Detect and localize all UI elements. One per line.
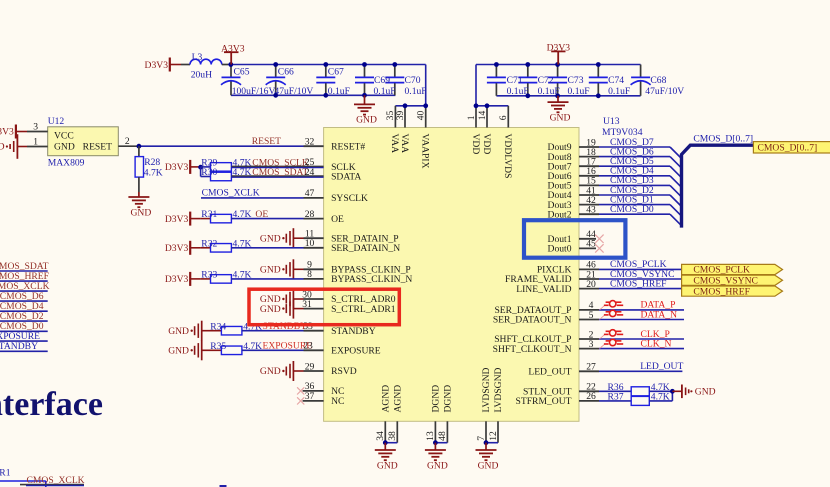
svg-text:EXPOSURE: EXPOSURE bbox=[331, 346, 381, 357]
svg-text:VAAPIX: VAAPIX bbox=[420, 134, 431, 169]
svg-text:LINE_VALID: LINE_VALID bbox=[516, 284, 571, 295]
svg-text:A3V3: A3V3 bbox=[221, 43, 245, 54]
svg-text:LVDSGND: LVDSGND bbox=[481, 367, 492, 412]
svg-text:C74: C74 bbox=[608, 75, 624, 86]
svg-text:3: 3 bbox=[33, 122, 38, 133]
svg-text:37: 37 bbox=[305, 391, 315, 402]
svg-text:4.7K: 4.7K bbox=[233, 270, 252, 281]
svg-text:LED_OUT: LED_OUT bbox=[528, 367, 571, 378]
svg-text:BYPASS_CLKIN_N: BYPASS_CLKIN_N bbox=[331, 274, 412, 285]
svg-text:0.1uF: 0.1uF bbox=[568, 86, 590, 97]
svg-text:STANDBY: STANDBY bbox=[263, 321, 308, 332]
svg-text:NC: NC bbox=[331, 396, 344, 407]
svg-text:VDDLVDS: VDDLVDS bbox=[502, 134, 513, 179]
svg-text:LVDSGND: LVDSGND bbox=[493, 367, 504, 412]
svg-text:13: 13 bbox=[425, 431, 436, 441]
svg-text:4.7K: 4.7K bbox=[233, 209, 252, 220]
svg-text:VDD: VDD bbox=[470, 134, 481, 155]
svg-text:100uF/16V: 100uF/16V bbox=[232, 86, 276, 97]
svg-text:4.7K: 4.7K bbox=[243, 341, 262, 352]
svg-text:0.1uF: 0.1uF bbox=[405, 86, 427, 97]
svg-text:U13: U13 bbox=[603, 116, 620, 127]
svg-text:SDATA: SDATA bbox=[331, 172, 361, 183]
svg-text:S_CTRL_ADR1: S_CTRL_ADR1 bbox=[331, 304, 396, 315]
svg-text:4.7K: 4.7K bbox=[144, 168, 163, 179]
svg-text:33: 33 bbox=[303, 321, 313, 332]
svg-text:DGND: DGND bbox=[443, 385, 454, 413]
svg-text:R35: R35 bbox=[210, 341, 226, 352]
svg-text:DGND: DGND bbox=[431, 385, 442, 413]
svg-text:32: 32 bbox=[305, 137, 315, 148]
svg-text:CMOS_D[0..7]: CMOS_D[0..7] bbox=[693, 134, 753, 145]
svg-text:GND: GND bbox=[260, 366, 281, 377]
svg-text:MAX809: MAX809 bbox=[48, 157, 85, 168]
svg-text:14: 14 bbox=[477, 111, 488, 121]
svg-text:0.1uF: 0.1uF bbox=[328, 86, 350, 97]
svg-text:D3V3: D3V3 bbox=[165, 274, 189, 285]
svg-text:CMOS_HREF: CMOS_HREF bbox=[693, 286, 750, 297]
svg-text:7: 7 bbox=[476, 436, 487, 441]
svg-text:RESET: RESET bbox=[83, 142, 112, 153]
svg-text:R30: R30 bbox=[201, 167, 217, 178]
svg-text:SYSCLK: SYSCLK bbox=[331, 193, 368, 204]
svg-text:C73: C73 bbox=[568, 75, 584, 86]
svg-text:RESET#: RESET# bbox=[331, 141, 365, 152]
svg-text:C68: C68 bbox=[650, 75, 666, 86]
svg-text:CMOS_D0: CMOS_D0 bbox=[610, 204, 654, 215]
svg-text:OE: OE bbox=[255, 209, 268, 220]
svg-text:D3V3: D3V3 bbox=[145, 60, 169, 71]
svg-text:GND: GND bbox=[260, 265, 281, 276]
svg-text:GND: GND bbox=[260, 233, 281, 244]
svg-text:R37: R37 bbox=[608, 392, 624, 403]
svg-text:C65: C65 bbox=[234, 67, 250, 78]
svg-text:CMOS_PCLK: CMOS_PCLK bbox=[693, 265, 750, 276]
svg-text:CMOS_XCLK: CMOS_XCLK bbox=[202, 188, 260, 199]
svg-text:RSVD: RSVD bbox=[331, 366, 357, 377]
svg-text:R28: R28 bbox=[144, 157, 160, 168]
svg-text:3: 3 bbox=[589, 339, 594, 350]
svg-text:GND: GND bbox=[427, 460, 448, 471]
svg-text:C66: C66 bbox=[278, 67, 294, 78]
svg-text:GND: GND bbox=[550, 112, 571, 123]
svg-text:D3V3: D3V3 bbox=[547, 43, 571, 54]
svg-text:GND: GND bbox=[356, 115, 377, 126]
svg-text:12: 12 bbox=[488, 431, 499, 441]
svg-text:4.7K: 4.7K bbox=[233, 238, 252, 249]
svg-text:47uF/10V: 47uF/10V bbox=[274, 86, 313, 97]
svg-text:27: 27 bbox=[586, 362, 596, 373]
svg-text:24: 24 bbox=[305, 167, 315, 178]
svg-text:SER_DATAOUT_N: SER_DATAOUT_N bbox=[493, 315, 572, 326]
svg-text:26: 26 bbox=[586, 391, 596, 402]
svg-text:GND: GND bbox=[695, 387, 716, 398]
svg-text:D3V3: D3V3 bbox=[0, 127, 14, 138]
svg-text:D3V3: D3V3 bbox=[165, 162, 189, 173]
svg-text:GND: GND bbox=[168, 326, 189, 337]
svg-text:5: 5 bbox=[589, 310, 594, 321]
svg-text:GND: GND bbox=[131, 208, 152, 219]
svg-text:AGND: AGND bbox=[381, 385, 392, 413]
svg-text:D3V3: D3V3 bbox=[165, 243, 189, 254]
svg-text:20: 20 bbox=[586, 279, 596, 290]
svg-text:39: 39 bbox=[395, 111, 406, 121]
svg-text:38: 38 bbox=[387, 431, 398, 441]
svg-text:Dout0: Dout0 bbox=[548, 244, 572, 255]
svg-text:CMOS_D[0..7]: CMOS_D[0..7] bbox=[758, 142, 818, 153]
svg-text:0.1uF: 0.1uF bbox=[608, 86, 630, 97]
svg-text:C72: C72 bbox=[538, 75, 554, 86]
svg-text:45: 45 bbox=[586, 239, 596, 250]
svg-text:2: 2 bbox=[125, 136, 130, 147]
svg-text:CMOS_HREF: CMOS_HREF bbox=[610, 278, 667, 289]
svg-text:R1: R1 bbox=[0, 468, 11, 479]
svg-text:31: 31 bbox=[302, 299, 312, 310]
svg-text:28: 28 bbox=[305, 209, 315, 220]
svg-text:29: 29 bbox=[305, 361, 315, 372]
svg-text:34: 34 bbox=[375, 431, 386, 441]
svg-text:SER_DATAIN_N: SER_DATAIN_N bbox=[331, 243, 400, 254]
svg-text:R33: R33 bbox=[201, 270, 217, 281]
svg-text:C69: C69 bbox=[374, 75, 390, 86]
svg-text:RESET: RESET bbox=[252, 136, 281, 147]
svg-text:U12: U12 bbox=[48, 116, 65, 127]
svg-text:DATA_N: DATA_N bbox=[641, 309, 678, 320]
svg-text:VAA: VAA bbox=[399, 134, 410, 154]
svg-text:VDD: VDD bbox=[481, 134, 492, 155]
svg-text:6: 6 bbox=[498, 115, 509, 120]
svg-text:STANDBY: STANDBY bbox=[0, 341, 38, 352]
svg-text:D3V3: D3V3 bbox=[165, 214, 189, 225]
svg-text:VCC: VCC bbox=[54, 130, 74, 141]
svg-text:R32: R32 bbox=[201, 238, 217, 249]
svg-text:0.1uF: 0.1uF bbox=[374, 86, 396, 97]
svg-text:C71: C71 bbox=[507, 75, 523, 86]
svg-text:SHFT_CLKOUT_N: SHFT_CLKOUT_N bbox=[493, 344, 572, 355]
svg-text:GND: GND bbox=[0, 142, 5, 153]
svg-text:R34: R34 bbox=[210, 321, 226, 332]
svg-text:1: 1 bbox=[466, 115, 477, 120]
svg-text:4.7K: 4.7K bbox=[233, 167, 252, 178]
svg-text:1: 1 bbox=[33, 137, 38, 148]
svg-text:GND: GND bbox=[54, 142, 75, 153]
svg-text:8: 8 bbox=[307, 269, 312, 280]
svg-text:L3: L3 bbox=[192, 52, 203, 63]
svg-text:47uF/10V: 47uF/10V bbox=[645, 86, 684, 97]
svg-text:47: 47 bbox=[305, 188, 315, 199]
svg-text:C70: C70 bbox=[405, 75, 421, 86]
svg-text:VAA: VAA bbox=[389, 134, 400, 154]
svg-text:GND: GND bbox=[377, 460, 398, 471]
svg-text:48: 48 bbox=[437, 431, 448, 441]
svg-text:nterface: nterface bbox=[0, 386, 103, 423]
svg-text:23: 23 bbox=[303, 341, 313, 352]
svg-text:0.1uF: 0.1uF bbox=[507, 86, 529, 97]
svg-text:STFRM_OUT: STFRM_OUT bbox=[516, 396, 572, 407]
svg-text:CMOS_VSYNC: CMOS_VSYNC bbox=[693, 276, 758, 287]
svg-text:R31: R31 bbox=[201, 209, 217, 220]
svg-text:C67: C67 bbox=[328, 67, 344, 78]
svg-text:43: 43 bbox=[586, 205, 596, 216]
svg-text:CLK_N: CLK_N bbox=[641, 338, 672, 349]
svg-text:10: 10 bbox=[305, 238, 315, 249]
svg-text:40: 40 bbox=[416, 111, 427, 121]
svg-text:STANDBY: STANDBY bbox=[331, 326, 376, 337]
svg-text:GND: GND bbox=[260, 304, 281, 315]
svg-text:20uH: 20uH bbox=[191, 69, 212, 80]
svg-text:GND: GND bbox=[168, 346, 189, 357]
svg-text:OE: OE bbox=[331, 214, 344, 225]
svg-text:GND: GND bbox=[478, 460, 499, 471]
svg-text:4.7K: 4.7K bbox=[243, 321, 262, 332]
svg-text:LED_OUT: LED_OUT bbox=[640, 361, 683, 372]
svg-text:AGND: AGND bbox=[393, 385, 404, 413]
svg-text:0.1uF: 0.1uF bbox=[538, 86, 560, 97]
svg-text:CMOS_SDAT: CMOS_SDAT bbox=[252, 167, 308, 178]
